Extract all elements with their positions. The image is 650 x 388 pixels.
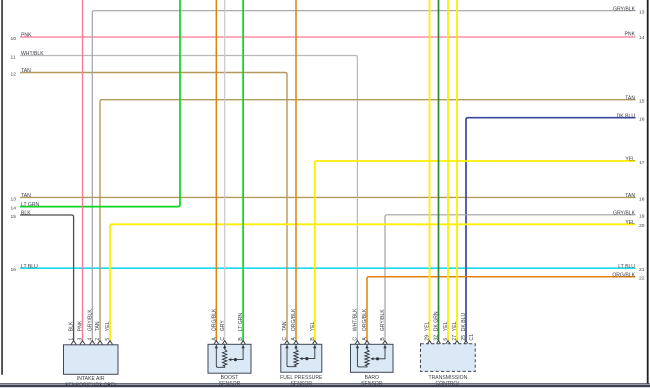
svg-text:1: 1 — [69, 338, 75, 341]
svg-text:ORG/BLK: ORG/BLK — [211, 308, 217, 331]
svg-text:27: 27 — [452, 335, 458, 341]
svg-text:A: A — [211, 337, 217, 341]
svg-text:C1: C1 — [469, 334, 475, 341]
svg-text:GRY/BLK: GRY/BLK — [380, 309, 386, 332]
svg-text:TAN: TAN — [21, 68, 31, 74]
svg-text:PNK: PNK — [21, 33, 32, 39]
svg-text:YEL: YEL — [425, 321, 431, 331]
svg-text:ORG/BLK: ORG/BLK — [291, 308, 297, 331]
svg-text:YEL: YEL — [452, 321, 458, 331]
svg-text:A: A — [362, 337, 368, 341]
svg-text:B: B — [310, 337, 316, 341]
svg-text:5: 5 — [105, 338, 111, 341]
svg-text:WHT/BLK: WHT/BLK — [21, 51, 44, 57]
svg-text:TRANSMISSION: TRANSMISSION — [429, 375, 468, 381]
svg-text:YEL: YEL — [105, 321, 111, 331]
svg-text:DK BLU: DK BLU — [461, 312, 467, 331]
svg-text:BLK: BLK — [69, 321, 75, 331]
svg-text:WHT/BLK: WHT/BLK — [353, 308, 359, 331]
svg-text:18: 18 — [639, 196, 645, 202]
svg-text:TAN: TAN — [282, 321, 288, 331]
svg-text:19: 19 — [639, 214, 645, 220]
svg-text:11: 11 — [11, 55, 16, 61]
svg-text:YEL: YEL — [310, 321, 316, 331]
svg-text:GRY/BLK: GRY/BLK — [613, 210, 636, 216]
svg-text:14: 14 — [639, 35, 645, 41]
svg-text:YEL: YEL — [625, 220, 635, 226]
svg-text:YEL: YEL — [443, 321, 449, 331]
svg-text:LT BLU: LT BLU — [618, 264, 635, 270]
svg-text:2: 2 — [95, 338, 101, 341]
svg-text:17: 17 — [639, 160, 645, 166]
svg-text:LT GRN: LT GRN — [238, 313, 244, 332]
svg-text:C: C — [220, 337, 226, 341]
svg-text:TAN: TAN — [21, 193, 31, 199]
svg-text:BOOST: BOOST — [221, 375, 239, 381]
svg-text:GRY/BLK: GRY/BLK — [87, 309, 93, 332]
svg-text:29: 29 — [425, 335, 431, 341]
svg-text:A: A — [291, 337, 297, 341]
svg-text:14: 14 — [11, 206, 17, 212]
svg-text:ORG/BLK: ORG/BLK — [362, 308, 368, 331]
svg-text:15: 15 — [639, 99, 645, 105]
svg-text:TAN: TAN — [95, 321, 101, 331]
svg-text:PNK: PNK — [625, 32, 636, 38]
svg-text:13: 13 — [639, 10, 645, 16]
svg-text:C: C — [353, 337, 359, 341]
svg-text:10: 10 — [11, 36, 17, 42]
svg-text:22: 22 — [639, 276, 645, 282]
svg-text:15: 15 — [11, 214, 17, 220]
svg-text:YEL: YEL — [625, 157, 635, 163]
svg-text:GRY: GRY — [220, 320, 226, 332]
svg-text:16: 16 — [11, 267, 17, 273]
svg-text:21: 21 — [639, 267, 645, 273]
svg-text:B: B — [380, 337, 386, 341]
svg-text:INTAKE AIR: INTAKE AIR — [77, 376, 105, 382]
svg-text:6: 6 — [443, 338, 449, 341]
svg-text:FUEL PRESSURE: FUEL PRESSURE — [280, 375, 323, 381]
svg-text:ORG/BLK: ORG/BLK — [612, 272, 635, 278]
svg-text:PNK: PNK — [78, 320, 84, 331]
svg-text:BARO: BARO — [365, 375, 379, 381]
svg-text:20: 20 — [639, 223, 645, 229]
svg-text:4: 4 — [87, 338, 93, 341]
svg-text:16: 16 — [639, 117, 645, 123]
svg-text:3: 3 — [78, 338, 84, 341]
svg-text:DK GRN: DK GRN — [434, 311, 440, 331]
svg-text:12: 12 — [11, 72, 17, 78]
svg-text:BLK: BLK — [21, 211, 31, 217]
svg-text:LT BLU: LT BLU — [21, 264, 38, 270]
svg-text:GRY/BLK: GRY/BLK — [613, 6, 636, 12]
svg-text:DK BLU: DK BLU — [617, 113, 636, 119]
svg-text:13: 13 — [11, 196, 17, 202]
svg-text:TAN: TAN — [625, 95, 635, 101]
svg-text:LT GRN: LT GRN — [21, 202, 40, 208]
svg-text:TAN: TAN — [625, 193, 635, 199]
svg-text:C: C — [282, 337, 288, 341]
svg-text:25: 25 — [461, 335, 467, 341]
svg-text:32: 32 — [434, 335, 440, 341]
svg-text:B: B — [238, 337, 244, 341]
